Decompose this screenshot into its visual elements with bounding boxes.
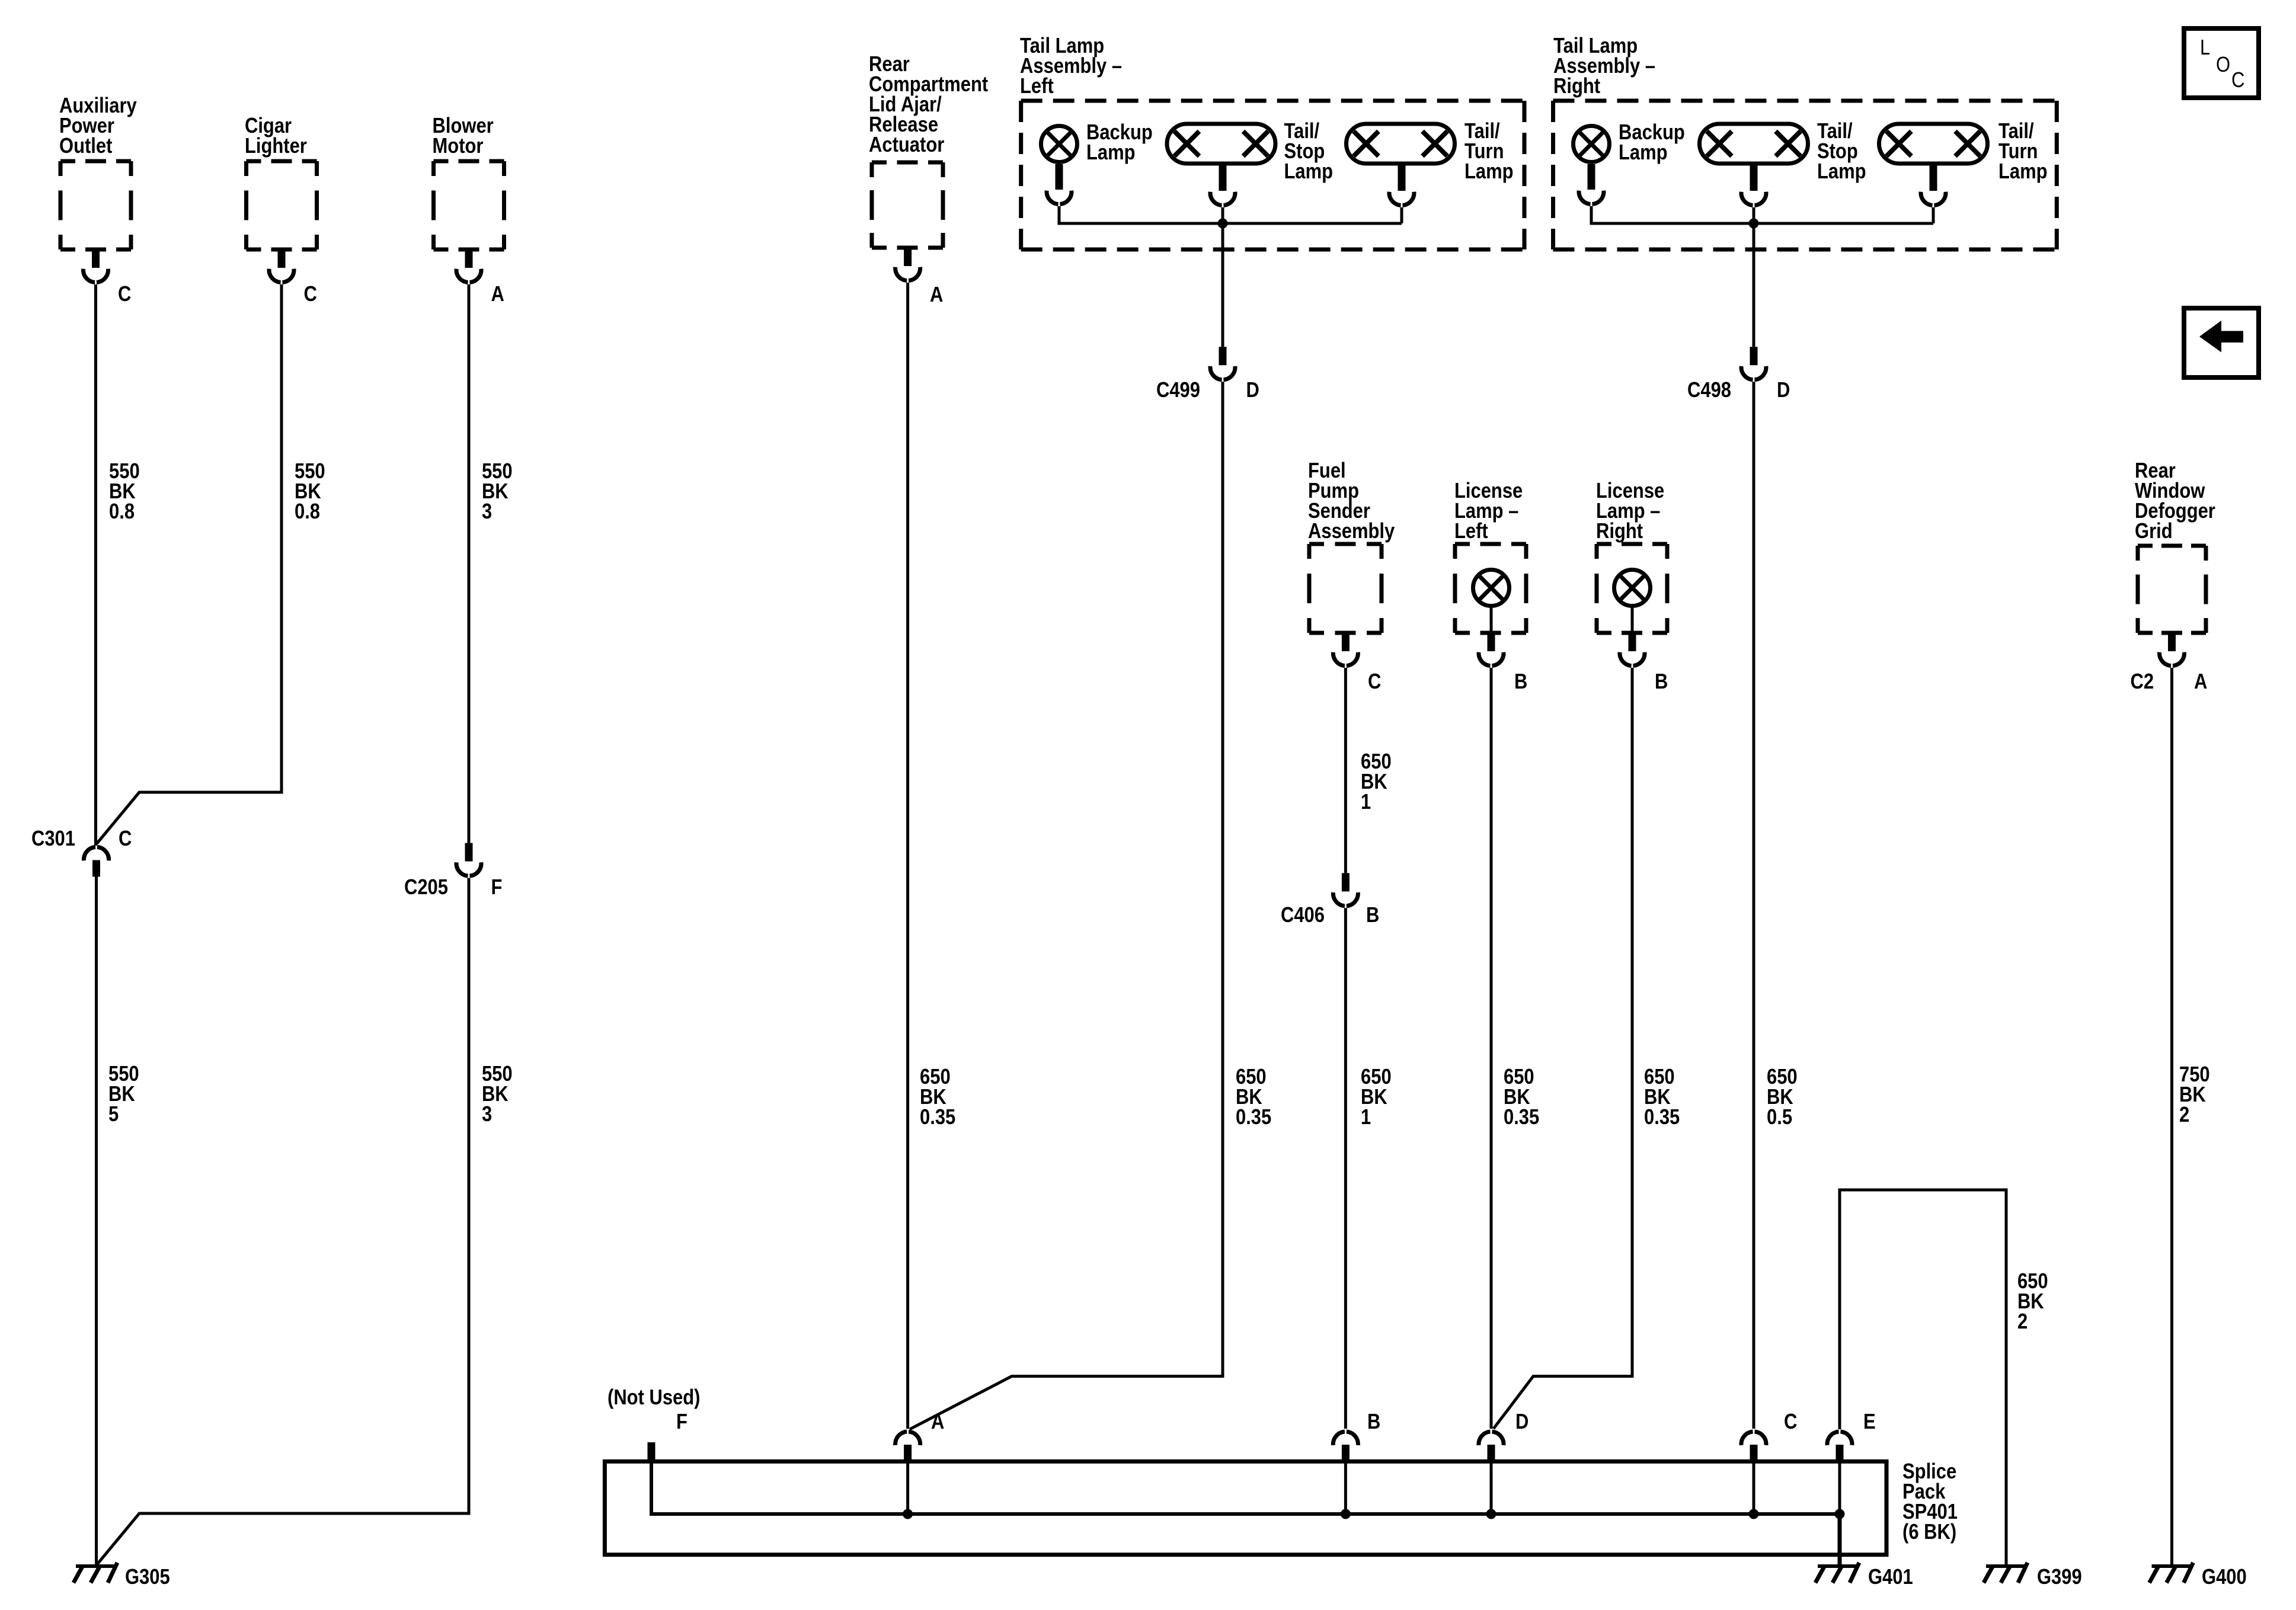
junction node B: [1341, 1509, 1351, 1519]
svg-text:E: E: [1863, 1410, 1876, 1434]
svg-text:0.35: 0.35: [1236, 1106, 1271, 1129]
splice terminal D cup: [1479, 1432, 1504, 1445]
svg-text:A: A: [931, 1410, 944, 1434]
svg-text:C2: C2: [2131, 670, 2154, 694]
Cigar Lighter box: [247, 159, 317, 164]
junction node E: [1835, 1509, 1845, 1519]
in-line connector C498 pin D: [1750, 347, 1758, 365]
svg-text:Outlet: Outlet: [59, 135, 112, 158]
svg-text:Lamp: Lamp: [1086, 141, 1136, 165]
splice terminal B cup: [1333, 1432, 1358, 1445]
Splice Pack SP401 box: [605, 1461, 1886, 1554]
wire 550 BK 3 from Blower Motor to C205: [468, 284, 471, 843]
svg-text:0.35: 0.35: [1644, 1106, 1680, 1129]
svg-text:Lamp: Lamp: [1998, 160, 2048, 184]
wire 650 BK 0.35 from license lamp left to splice terminal D: [1490, 668, 1493, 1429]
svg-text:L: L: [2200, 36, 2210, 60]
terminal B internal wire: [1344, 1461, 1347, 1514]
svg-text:5: 5: [108, 1103, 119, 1126]
connector pin A of actuator: [904, 248, 912, 266]
svg-text:F: F: [491, 876, 503, 900]
terminal A internal wire: [906, 1461, 909, 1514]
splice bus wire: [651, 1460, 1840, 1514]
tail/stop lamp (left): [1167, 124, 1275, 164]
wire 550 BK 3 from C205 to G305: [97, 878, 469, 1565]
tail/turn lamp connector: [1398, 165, 1406, 191]
svg-text:B: B: [1514, 670, 1527, 694]
Fuel Pump Sender Assembly box: [1309, 542, 1382, 546]
svg-text:C: C: [1368, 670, 1381, 694]
svg-text:D: D: [1246, 379, 1259, 402]
svg-text:F: F: [676, 1410, 687, 1434]
junction node: [1749, 219, 1759, 229]
ground G401: [1818, 1564, 1858, 1568]
tail/turn lamp connector: [1930, 165, 1937, 191]
tail/stop lamp connector: [1219, 165, 1227, 191]
Tail Lamp Assembly Right box: [1553, 99, 2057, 103]
svg-text:Motor: Motor: [433, 135, 484, 158]
svg-text:0.8: 0.8: [295, 500, 320, 524]
svg-text:G401: G401: [1868, 1566, 1913, 1589]
wire from splice pack to G401: [1838, 1514, 1842, 1566]
tail/turn lamp (left): [1347, 124, 1455, 164]
in-line connector C499 pin D: [1219, 347, 1227, 365]
connector pin C of Cigar Lighter: [278, 249, 286, 268]
svg-text:0.35: 0.35: [1504, 1106, 1539, 1129]
tail/stop lamp connector: [1750, 165, 1758, 191]
ground G399: [1986, 1564, 2026, 1568]
svg-text:A: A: [2194, 670, 2207, 694]
connector pin C of fuel pump sender: [1342, 633, 1350, 651]
backup lamp (right): [1574, 126, 1610, 162]
svg-text:C406: C406: [1281, 904, 1325, 927]
wire 750 BK 2 from defogger to G400: [2170, 668, 2173, 1566]
terminal C internal wire: [1753, 1461, 1755, 1514]
svg-text:A: A: [930, 283, 943, 307]
junction node D: [1486, 1509, 1496, 1519]
svg-text:0.5: 0.5: [1767, 1106, 1792, 1129]
svg-text:G400: G400: [2202, 1566, 2247, 1589]
svg-text:Lighter: Lighter: [245, 135, 307, 158]
backup lamp connector: [1588, 164, 1595, 190]
svg-text:(6 BK): (6 BK): [1902, 1521, 1956, 1544]
terminal E internal wire: [1838, 1461, 1841, 1514]
ground G305: [76, 1564, 116, 1568]
svg-text:C: C: [1784, 1410, 1797, 1434]
wire from backup lamp: [1591, 206, 1933, 223]
svg-text:Assembly: Assembly: [1308, 520, 1395, 543]
wire 550 BK 0.8 from Auxiliary Power Outlet to C301: [94, 284, 97, 846]
svg-text:Lamp: Lamp: [1619, 141, 1668, 165]
svg-text:Lamp: Lamp: [1464, 160, 1514, 184]
connector pin A of Blower Motor: [465, 249, 473, 268]
license lamp right lead: [1631, 606, 1634, 633]
wire from backup lamp: [1059, 206, 1402, 223]
junction node A: [903, 1509, 913, 1519]
arrow box: [2184, 308, 2259, 377]
wire 650 BK 2 loop from splice terminal E to G399: [1840, 1190, 2006, 1566]
svg-text:Grid: Grid: [2135, 520, 2173, 543]
svg-text:C498: C498: [1687, 379, 1731, 402]
svg-text:C301: C301: [31, 827, 75, 851]
in-line connector C301 pin C: [84, 847, 109, 861]
svg-text:2: 2: [2179, 1103, 2189, 1127]
svg-text:0.35: 0.35: [920, 1106, 955, 1129]
svg-text:1: 1: [1361, 790, 1371, 814]
svg-text:C: C: [118, 283, 131, 306]
tail/stop lamp (right): [1700, 124, 1808, 164]
License Lamp Left box: [1455, 542, 1526, 546]
svg-text:C: C: [2231, 69, 2244, 92]
splice terminal E cup: [1827, 1432, 1852, 1445]
wire from tail/stop lamp to C498: [1753, 207, 1755, 347]
svg-text:Actuator: Actuator: [869, 133, 944, 157]
svg-text:3: 3: [482, 500, 492, 524]
left arrow glyph: [2199, 321, 2243, 353]
splice terminal F pin (not used): [648, 1442, 655, 1460]
svg-text:C: C: [119, 827, 132, 851]
splice terminal A cup: [896, 1432, 920, 1445]
license lamp left bulb: [1473, 570, 1510, 606]
svg-text:Right: Right: [1596, 520, 1643, 543]
ground G400: [2152, 1564, 2192, 1568]
Tail Lamp Assembly Left box: [1021, 99, 1524, 103]
svg-text:G305: G305: [125, 1566, 170, 1589]
connector pin C of Auxiliary Power Outlet: [92, 249, 100, 268]
wire 650 BK 1 from fuel pump to C406: [1344, 668, 1347, 873]
wire from tail/turn lamp: [1400, 207, 1403, 223]
svg-text:D: D: [1777, 379, 1790, 402]
wire 650 BK 1 from C406 to splice terminal B: [1344, 908, 1347, 1429]
svg-text:B: B: [1366, 904, 1379, 927]
svg-text:C499: C499: [1156, 379, 1200, 402]
svg-text:C205: C205: [404, 876, 448, 900]
backup lamp (left): [1041, 126, 1077, 162]
tail/turn lamp (right): [1879, 124, 1988, 164]
in-line connector C406 pin B: [1342, 873, 1350, 891]
Auxiliary Power Outlet box: [60, 159, 131, 164]
License Lamp Right box: [1597, 542, 1667, 546]
svg-text:C: C: [303, 283, 316, 306]
Blower Motor box: [434, 159, 504, 164]
svg-text:B: B: [1655, 670, 1668, 694]
wire from tail/stop lamp to C499: [1221, 207, 1224, 347]
svg-text:0.8: 0.8: [109, 500, 135, 524]
svg-text:Lamp: Lamp: [1284, 160, 1334, 184]
svg-text:Left: Left: [1454, 520, 1488, 543]
svg-text:Right: Right: [1553, 75, 1600, 98]
connector pin B of license lamp right: [1629, 633, 1636, 651]
wire 650 BK 0.35 from actuator to splice terminal A: [906, 283, 909, 1429]
terminal D internal wire: [1490, 1461, 1493, 1514]
backup lamp connector: [1056, 164, 1063, 190]
Rear Compartment Lid Ajar/Release Actuator box: [872, 161, 943, 165]
wire 650 BK 0.35 from license lamp right to splice terminal D: [1494, 668, 1632, 1429]
svg-text:3: 3: [482, 1103, 492, 1126]
svg-text:1: 1: [1361, 1106, 1371, 1129]
wire from tail/turn lamp: [1932, 207, 1935, 223]
junction node C: [1749, 1509, 1759, 1519]
svg-text:Left: Left: [1020, 75, 1054, 98]
svg-text:G399: G399: [2037, 1566, 2082, 1589]
connector C2 pin A of defogger grid: [2168, 633, 2176, 651]
license lamp right bulb: [1614, 570, 1651, 606]
junction node: [1218, 219, 1228, 229]
splice terminal C cup: [1741, 1432, 1766, 1445]
svg-text:(Not Used): (Not Used): [607, 1386, 700, 1410]
svg-text:O: O: [2216, 53, 2230, 77]
wire 650 BK 0.35 from C499 to splice terminal A: [910, 382, 1223, 1429]
wire 550 BK 0.8 from Cigar Lighter to C301: [97, 284, 282, 844]
Rear Window Defogger Grid box: [2138, 544, 2206, 548]
LOC reference box: [2184, 28, 2259, 98]
connector pin B of license lamp left: [1488, 633, 1495, 651]
svg-text:A: A: [491, 283, 504, 306]
svg-text:Lamp: Lamp: [1817, 160, 1866, 184]
wire 550 BK 5 from C301 to G305: [95, 877, 98, 1566]
license lamp left lead: [1490, 606, 1493, 633]
in-line connector C205 pin F: [465, 843, 473, 862]
wire 650 BK 0.5 from C498 to splice terminal C: [1753, 382, 1755, 1429]
svg-text:D: D: [1515, 1410, 1528, 1434]
svg-text:B: B: [1367, 1410, 1380, 1434]
svg-text:2: 2: [2017, 1310, 2028, 1334]
